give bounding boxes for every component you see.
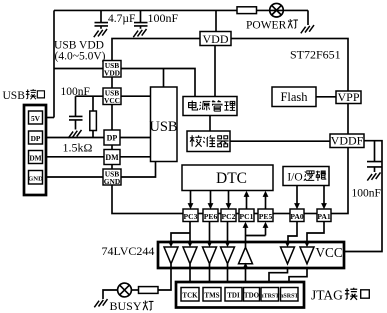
wire VDD pin riser from top rail: [215, 10, 217, 32]
pin nSRST box: [281, 288, 299, 302]
wire buffer to BUSY lamp branch: [158, 264, 171, 290]
svg-text:TDI: TDI: [227, 292, 240, 300]
svg-text:TMS: TMS: [204, 292, 219, 300]
svg-text:USB: USB: [149, 119, 177, 135]
wire resistor to BUSY lamp: [131, 289, 138, 291]
svg-text:VCC: VCC: [104, 96, 120, 105]
wire USB VDD pin to power-management block: [121, 69, 195, 97]
wire VDDF to 100nF cap and buffer VCC: [344, 141, 382, 252]
wire POWER lamp ground drop: [307, 10, 309, 25]
pin 5V: [29, 111, 43, 124]
wire 100nF cap tap from VDDF net: [374, 141, 376, 161]
wire GND line connector to MCU USB GND pin: [42, 176, 103, 178]
wire buffer to TDI (down arrow): [227, 264, 229, 282]
resistor R3 (BUSY lamp series): [139, 287, 159, 294]
wire DTC to PC2 (down arrow): [228, 191, 230, 204]
pin PC2 box: [221, 209, 236, 222]
buffer U2 74LVC244 box: [158, 242, 344, 268]
pin VDD box: [200, 32, 231, 46]
wire DTC to PC3 (down arrow): [190, 191, 192, 204]
power management block: [183, 97, 237, 116]
svg-text:4.7µF: 4.7µF: [108, 13, 135, 25]
buffer gate (down) at x=171: [164, 247, 178, 264]
svg-text:100nF: 100nF: [61, 86, 90, 98]
pin PC3 box: [183, 209, 198, 222]
wire 5V riser from USB connector to top rail: [53, 10, 55, 117]
wire 5V pin to riser: [42, 117, 54, 119]
svg-text:DM: DM: [105, 153, 119, 162]
svg-text:BUSY: BUSY: [110, 299, 142, 313]
buffer gate (down) at x=227.5: [221, 247, 235, 264]
buffer gate (up) TDO readback: [239, 247, 253, 264]
pin DP box: [104, 130, 120, 145]
pin USB VDD box: [103, 61, 121, 78]
USB block: [151, 87, 178, 162]
capacitor C1 4.7uF: [95, 10, 109, 28]
svg-text:PE5: PE5: [259, 212, 273, 221]
capacitor C2 100nF (top): [134, 10, 148, 28]
svg-text:PC3: PC3: [184, 212, 198, 221]
I/O logic block: [283, 167, 329, 186]
buffer gate (down) for nSRST: [300, 247, 314, 264]
svg-text:PA1: PA1: [317, 212, 331, 221]
wire buffer to TMS (down arrow): [209, 264, 211, 282]
connector J1 USB outer box: [24, 105, 46, 195]
pin TCK box: [181, 288, 199, 302]
svg-text:VDD: VDD: [203, 32, 229, 46]
pin nTRST box: [261, 288, 279, 302]
wire PC3 to buffer (down arrow) with branch to BUSY buffer: [171, 222, 190, 243]
svg-text:VCC: VCC: [316, 245, 343, 260]
wire PC2 to buffer (down arrow): [227, 222, 229, 243]
wire BUSY lamp to ground: [103, 290, 118, 299]
lamp BUSY: [118, 283, 132, 297]
svg-text:ST72F651: ST72F651: [290, 47, 341, 61]
wire USB VDD net (5V riser to USB VDD pin): [54, 68, 103, 70]
wire Flash to VPP pin: [316, 96, 336, 98]
pin TDO box: [244, 288, 260, 302]
wire PA0 to buffer (jog, down arrow): [288, 222, 297, 243]
capacitor C4 100nF (VDDF): [367, 162, 382, 172]
buffer gate (down) for nTRST: [281, 247, 295, 264]
pin USB VCC box: [103, 88, 121, 105]
wire I/O logic to PA1 (down arrow): [323, 186, 325, 204]
ground for BUSY lamp: [94, 299, 107, 307]
wire top VDD rail: [54, 9, 308, 11]
pin PA0 box: [290, 209, 304, 222]
wire DM pin into USB block: [120, 156, 151, 158]
DTC block: [182, 165, 273, 191]
wire PE5 to DTC (up arrow): [265, 197, 267, 210]
op-amp / MCU block ST72F651 outline: [112, 39, 348, 214]
wire buffer to nSRST (jog, down arrow): [289, 268, 307, 282]
ground under C1: [94, 29, 107, 37]
wire DTC to PE6 (down arrow): [210, 191, 212, 204]
connector J2 JTAG outer box: [176, 282, 304, 308]
svg-text:Flash: Flash: [280, 90, 308, 104]
wire DP pin into USB block: [120, 137, 151, 139]
wire buffer to nTRST (jog, down arrow): [269, 268, 288, 282]
svg-text:DTC: DTC: [216, 170, 247, 187]
wire branch from USB VDD net down to USB block: [163, 69, 165, 89]
calibrator block: [187, 131, 230, 152]
svg-text:PA0: PA0: [290, 212, 304, 221]
svg-text:DM: DM: [29, 153, 41, 162]
pin DM box: [104, 150, 120, 165]
wire USB GND pin up into USB block bottom: [121, 162, 156, 178]
svg-text:5V: 5V: [31, 114, 41, 123]
pin PE5 box: [258, 209, 273, 222]
wire power-management to calibrator: [209, 116, 211, 132]
capacitor C3 100nF (USB VCC decoupling): [69, 96, 83, 129]
svg-text:JTAG: JTAG: [311, 287, 343, 302]
ground for POWER lamp: [301, 25, 314, 33]
resistor R2 1.5k pull-up: [92, 96, 94, 137]
wire I/O logic to PA0 (down arrow): [296, 186, 298, 204]
svg-text:PC2: PC2: [222, 212, 236, 221]
pin TMS box: [203, 288, 221, 302]
svg-text:100nF: 100nF: [148, 11, 179, 25]
svg-text:GND: GND: [28, 176, 43, 183]
pin PC1 box: [239, 209, 254, 222]
svg-text:DP: DP: [31, 134, 41, 143]
wire buffer output up to PC1 and PE5 (up arrows): [246, 227, 266, 247]
svg-text:TCK: TCK: [182, 292, 198, 300]
pin DP (connector): [29, 131, 43, 144]
svg-text:(4.0~5.0V): (4.0~5.0V): [55, 50, 106, 62]
svg-text:GND: GND: [104, 177, 120, 186]
svg-text:VDD: VDD: [104, 69, 120, 78]
svg-text:100nF: 100nF: [352, 188, 381, 200]
wire DM line connector to MCU DM pin: [42, 156, 104, 158]
lamp POWER: [270, 3, 284, 17]
resistor R1 (POWER lamp series): [237, 7, 257, 14]
buffer gate (down) at x=209.5: [203, 247, 217, 264]
pin GND (connector): [29, 171, 43, 185]
svg-text:1.5kΩ: 1.5kΩ: [63, 140, 93, 154]
svg-text:nSRST: nSRST: [280, 294, 298, 300]
pin TDI box: [225, 288, 242, 302]
buffer gate (down) at x=190: [183, 247, 197, 264]
ground under C3: [68, 130, 81, 138]
wire USB VCC pin into USB block: [121, 95, 151, 97]
ground under C4: [367, 172, 380, 180]
svg-text:PE6: PE6: [204, 212, 218, 221]
svg-text:USB: USB: [3, 90, 26, 102]
svg-text:VDDF: VDDF: [331, 134, 364, 148]
ground under C2: [133, 29, 146, 37]
pin PE6 box: [203, 209, 218, 222]
svg-text:74LVC244: 74LVC244: [102, 244, 155, 258]
pin VDDF box: [330, 134, 364, 148]
svg-text:VPP: VPP: [337, 90, 359, 104]
svg-text:POWER: POWER: [246, 19, 287, 31]
pin USB GND box: [103, 169, 121, 185]
pin PA1 box: [317, 209, 331, 222]
svg-text:TDO: TDO: [244, 292, 260, 300]
wire PE6 to buffer (down arrow): [209, 222, 211, 243]
wire PC1 to DTC (up arrow): [246, 197, 248, 210]
wire PA1 to buffer (jog, down arrow): [307, 222, 324, 243]
pin DM (connector): [29, 151, 43, 164]
pin VPP box: [336, 91, 361, 104]
svg-text:DP: DP: [107, 134, 118, 143]
wire DP line connector to MCU DP pin: [42, 137, 104, 139]
Flash block: [272, 87, 316, 107]
wire TDO up into buffer (up arrow at buffer edge): [245, 265, 247, 288]
wire calibrator to VDDF pin: [230, 140, 330, 142]
wire VDD box down to power-management block: [214, 45, 216, 97]
wire buffer to TCK (down arrow): [189, 264, 191, 282]
svg-text:PC1: PC1: [240, 212, 254, 221]
svg-text:I/O: I/O: [287, 172, 302, 184]
wire USB VCC pin to decoupling cap / pull-up: [76, 95, 104, 97]
svg-text:nTRST: nTRST: [260, 294, 279, 300]
